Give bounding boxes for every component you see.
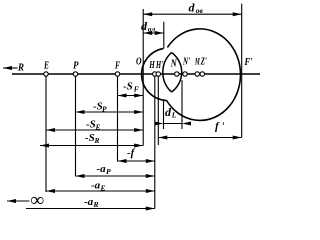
arrowhead d_L left xyxy=(155,122,164,126)
arrowhead d_ol right xyxy=(155,31,164,35)
dimension line d_L xyxy=(164,123,183,125)
node H' xyxy=(156,72,160,76)
node H xyxy=(153,72,157,76)
arrowhead -f left xyxy=(118,159,127,163)
svg-text:M: M xyxy=(194,58,200,68)
arrowhead d_ov right xyxy=(233,12,242,16)
arrowhead -a_R right xyxy=(146,207,155,211)
arrowhead f' left xyxy=(158,136,167,140)
svg-text:-S: -S xyxy=(85,132,95,144)
svg-text:ол: ол xyxy=(148,25,156,34)
svg-text:H': H' xyxy=(155,60,163,71)
extension line H' xyxy=(157,76,159,145)
dimension line -S_P xyxy=(76,111,144,113)
arrowhead R xyxy=(3,66,12,70)
crystalline lens back surface xyxy=(172,53,182,93)
node F xyxy=(115,72,119,76)
extension line d_L left xyxy=(163,101,165,129)
svg-text:E: E xyxy=(100,184,106,193)
svg-text:E: E xyxy=(43,60,49,72)
svg-text:d: d xyxy=(189,1,196,15)
dimension line -S_R xyxy=(40,145,143,147)
dimension line -a_E xyxy=(46,190,155,192)
arrowhead -S_F right xyxy=(134,94,143,98)
arrowhead -S_E left xyxy=(46,128,55,132)
svg-text:f ': f ' xyxy=(215,121,224,133)
svg-text:Z': Z' xyxy=(200,56,207,68)
node P xyxy=(73,72,77,76)
arrowhead -S_P right xyxy=(134,110,143,114)
svg-text:H: H xyxy=(149,60,156,71)
svg-text:P: P xyxy=(102,105,107,114)
arrowhead infinity xyxy=(7,199,16,203)
arrowhead -a_E right xyxy=(146,189,155,193)
svg-text:N: N xyxy=(170,58,178,70)
dimension line -f xyxy=(118,160,155,162)
svg-text:-a: -a xyxy=(91,180,101,192)
extension line F xyxy=(117,76,119,162)
extension line P xyxy=(75,76,77,177)
dimension line -S_F xyxy=(118,95,144,97)
svg-text:-S: -S xyxy=(123,81,133,93)
svg-text:F': F' xyxy=(244,56,253,68)
arrowhead f' right xyxy=(233,136,242,140)
dimension line f' xyxy=(158,137,241,139)
arrowhead -S_R left xyxy=(40,144,49,148)
extension line E xyxy=(45,76,47,192)
node M xyxy=(195,72,199,76)
extension line d_L right xyxy=(181,80,183,129)
arrowhead -a_P left xyxy=(76,174,85,178)
infinity arrow line xyxy=(7,200,30,202)
svg-text:ов: ов xyxy=(196,6,204,15)
svg-text:R: R xyxy=(17,62,24,74)
svg-text:-a: -a xyxy=(97,163,107,175)
dimension line -a_P xyxy=(76,175,155,177)
arrowhead -S_F left xyxy=(118,94,127,98)
dimension line d_ol xyxy=(143,32,164,34)
svg-text:R: R xyxy=(93,200,99,209)
optical axis xyxy=(12,73,260,75)
arrowhead d_ol left xyxy=(143,31,152,35)
arrowhead -a_E left xyxy=(46,189,55,193)
dimension line d_ov xyxy=(143,13,242,15)
extension line H xyxy=(154,76,156,209)
arrowhead -S_E right xyxy=(134,128,143,132)
eyeball outline xyxy=(167,29,241,121)
svg-text:F: F xyxy=(114,60,120,72)
svg-text:N': N' xyxy=(182,56,190,68)
arrowhead d_L right xyxy=(182,122,191,126)
svg-text:L: L xyxy=(171,111,177,120)
extension line O xyxy=(142,9,144,146)
R direction arrow line xyxy=(3,67,18,69)
svg-text:R: R xyxy=(94,136,100,145)
svg-text:P: P xyxy=(73,60,79,72)
svg-text:-S: -S xyxy=(86,119,96,131)
node N xyxy=(175,72,179,76)
extension line F' xyxy=(241,4,243,138)
arrowhead -S_P left xyxy=(76,110,85,114)
extension line lens front top xyxy=(163,22,165,49)
arrowhead d_ov left xyxy=(143,12,152,16)
svg-text:P: P xyxy=(106,167,111,176)
dimension line -S_E xyxy=(46,129,143,131)
arrowhead -S_R right xyxy=(134,144,143,148)
svg-text:E: E xyxy=(95,123,101,132)
svg-text:F: F xyxy=(134,85,139,94)
cornea bulge xyxy=(142,49,167,101)
arrowhead -f right xyxy=(146,159,155,163)
node N' xyxy=(183,72,187,76)
svg-text:-a: -a xyxy=(84,196,94,208)
svg-text:∞: ∞ xyxy=(31,190,45,211)
dimension line -a_R xyxy=(26,208,155,210)
node Z' xyxy=(200,72,204,76)
node E xyxy=(44,72,48,76)
svg-text:O: O xyxy=(136,56,142,68)
crystalline lens front surface xyxy=(163,53,172,93)
arrowhead -a_P right xyxy=(146,174,155,178)
